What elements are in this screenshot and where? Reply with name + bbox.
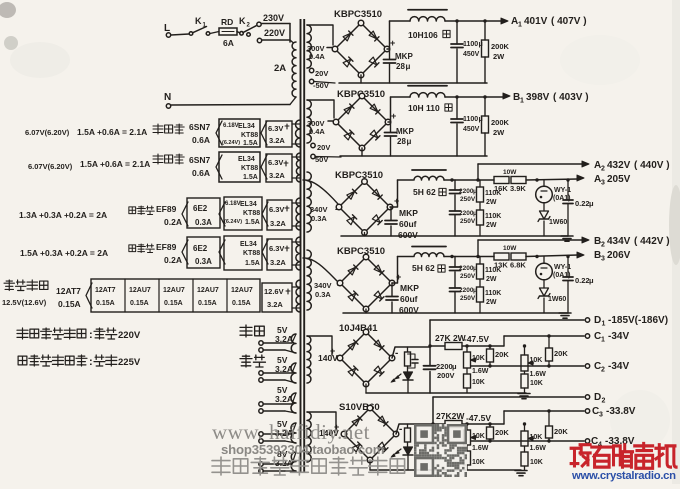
svg-text:1.5A: 1.5A <box>243 140 258 147</box>
svg-text:+: + <box>390 38 395 48</box>
svg-text:KT88: KT88 <box>241 132 258 139</box>
svg-text:(6.24V): (6.24V) <box>224 219 242 225</box>
svg-text:shop35392304.taobao.com: shop35392304.taobao.com <box>221 442 384 457</box>
svg-text:KBPC3510: KBPC3510 <box>335 170 383 181</box>
svg-text:0.4A: 0.4A <box>309 127 325 136</box>
svg-text:20V: 20V <box>315 69 328 78</box>
svg-text:20K: 20K <box>554 349 568 358</box>
svg-text:( 440V ): ( 440V ) <box>634 160 670 171</box>
svg-text:434V: 434V <box>607 236 631 247</box>
svg-text:KT88: KT88 <box>243 210 260 217</box>
svg-text:0.2A: 0.2A <box>164 255 182 265</box>
svg-text:N: N <box>164 92 171 103</box>
svg-text:250V: 250V <box>460 295 476 302</box>
svg-text:2: 2 <box>602 398 606 405</box>
svg-text:D: D <box>594 315 601 326</box>
svg-text:12AU7: 12AU7 <box>129 287 151 294</box>
svg-text:RD: RD <box>221 17 233 27</box>
svg-text:EF89: EF89 <box>156 242 177 252</box>
svg-text:27K2W: 27K2W <box>436 411 465 421</box>
svg-text:250V: 250V <box>460 273 476 280</box>
svg-text:12AT7: 12AT7 <box>95 287 116 294</box>
svg-text::: : <box>89 356 93 368</box>
svg-text:0.3A: 0.3A <box>311 214 327 223</box>
svg-text:6.18V: 6.18V <box>223 123 239 129</box>
svg-text:200K: 200K <box>491 42 510 51</box>
svg-text:1.6W: 1.6W <box>530 371 547 378</box>
svg-text::: : <box>89 329 93 341</box>
svg-text:2200: 2200 <box>436 362 453 371</box>
svg-text:+: + <box>396 272 401 282</box>
svg-text:10K: 10K <box>472 355 485 362</box>
svg-text:EL34: EL34 <box>240 241 257 248</box>
svg-text:μ: μ <box>589 199 594 208</box>
svg-text:1.6W: 1.6W <box>530 445 547 452</box>
svg-text:230V: 230V <box>263 13 284 23</box>
svg-text:KT88: KT88 <box>243 250 260 257</box>
svg-text:200V: 200V <box>437 371 455 380</box>
svg-text:0.22: 0.22 <box>575 276 590 285</box>
svg-text:1.3A +0.3A +0.2A = 2A: 1.3A +0.3A +0.2A = 2A <box>19 210 107 220</box>
svg-text:( 442V ): ( 442V ) <box>634 236 670 247</box>
svg-text:6.18V: 6.18V <box>225 201 241 207</box>
svg-text:3.2A: 3.2A <box>275 394 293 404</box>
svg-text:16K: 16K <box>494 184 508 193</box>
svg-text:-47.5V: -47.5V <box>466 413 491 423</box>
svg-text:12AU7: 12AU7 <box>197 287 219 294</box>
svg-text:2W: 2W <box>486 199 497 206</box>
svg-text:600V: 600V <box>398 230 418 240</box>
svg-text:( 407V ): ( 407V ) <box>551 16 587 27</box>
svg-text:+: + <box>330 346 335 356</box>
svg-text:2W: 2W <box>486 222 497 229</box>
svg-text:6SN7: 6SN7 <box>189 155 211 165</box>
svg-text:KBPC3510: KBPC3510 <box>334 9 382 20</box>
svg-text:225V: 225V <box>118 357 141 368</box>
svg-text:2W: 2W <box>486 276 497 283</box>
svg-text:KBPC3510: KBPC3510 <box>337 246 385 257</box>
svg-text:1.5A: 1.5A <box>245 260 260 267</box>
svg-text:340V: 340V <box>314 281 332 290</box>
svg-text:2200: 2200 <box>459 287 474 294</box>
svg-text:0.15A: 0.15A <box>232 300 251 307</box>
svg-text:340V: 340V <box>310 205 328 214</box>
svg-text:27K 2W: 27K 2W <box>435 333 467 343</box>
svg-text:12AU7: 12AU7 <box>231 287 253 294</box>
svg-text:+: + <box>391 111 396 121</box>
svg-text:6.3V: 6.3V <box>268 158 283 167</box>
svg-text:12AT7: 12AT7 <box>56 286 81 296</box>
svg-text:μ: μ <box>589 276 594 285</box>
svg-text:3.2A: 3.2A <box>270 219 286 228</box>
svg-text:450V: 450V <box>463 126 480 133</box>
svg-text:μ: μ <box>406 62 411 71</box>
svg-text:10W: 10W <box>503 245 517 252</box>
svg-text:0.4A: 0.4A <box>309 52 325 61</box>
svg-text:12.6V: 12.6V <box>264 287 284 296</box>
svg-text:D: D <box>594 392 601 403</box>
svg-text:10K: 10K <box>530 459 543 466</box>
svg-text:10K: 10K <box>530 380 543 387</box>
svg-text:6E2: 6E2 <box>193 204 208 213</box>
svg-text:3.9K: 3.9K <box>510 184 526 193</box>
svg-text:13K: 13K <box>494 261 508 270</box>
svg-text:1.5A: 1.5A <box>243 174 258 181</box>
svg-text:1.5A: 1.5A <box>245 219 260 226</box>
svg-text:206V: 206V <box>607 250 631 261</box>
svg-text:6.07V(6.20V): 6.07V(6.20V) <box>28 162 73 171</box>
svg-text:20V: 20V <box>317 143 330 152</box>
svg-text:0.6A: 0.6A <box>192 135 210 145</box>
svg-text:EL34: EL34 <box>238 156 255 163</box>
svg-text:60uf: 60uf <box>400 294 418 304</box>
svg-text:250V: 250V <box>460 196 476 203</box>
svg-text:10J4B41: 10J4B41 <box>339 323 378 334</box>
svg-text:6A: 6A <box>223 38 234 48</box>
svg-text:10H106: 10H106 <box>408 30 438 40</box>
svg-text:3.2A: 3.2A <box>267 300 283 309</box>
svg-text:EL34: EL34 <box>240 201 257 208</box>
svg-text:432V: 432V <box>607 160 631 171</box>
svg-text:12.5V(12.6V): 12.5V(12.6V) <box>2 298 47 307</box>
svg-text:-34V: -34V <box>608 331 629 342</box>
svg-text:( 403V ): ( 403V ) <box>553 92 589 103</box>
svg-text:5H 62: 5H 62 <box>412 263 435 273</box>
svg-text:EF89: EF89 <box>156 204 177 214</box>
svg-text:5H 62: 5H 62 <box>413 187 436 197</box>
svg-text:0.6A: 0.6A <box>192 168 210 178</box>
svg-text:220V: 220V <box>264 28 285 38</box>
svg-text:2: 2 <box>601 242 605 249</box>
svg-text:401V: 401V <box>524 16 548 27</box>
svg-text:KT88: KT88 <box>241 165 258 172</box>
svg-text:1.5A +0.6A = 2.1A: 1.5A +0.6A = 2.1A <box>77 127 147 137</box>
svg-text:6.07V(6.20V): 6.07V(6.20V) <box>25 128 70 137</box>
svg-text:1: 1 <box>520 98 524 105</box>
svg-text:0.3A: 0.3A <box>315 290 331 299</box>
svg-text:MKP: MKP <box>395 52 413 61</box>
svg-text:MKP: MKP <box>400 283 419 293</box>
svg-text:1: 1 <box>602 321 606 328</box>
svg-text:12AU7: 12AU7 <box>163 287 185 294</box>
svg-text:3.2A: 3.2A <box>269 136 285 145</box>
svg-text:μ: μ <box>452 362 457 371</box>
svg-text:0.15A: 0.15A <box>164 300 183 307</box>
svg-text:2W: 2W <box>493 52 505 61</box>
svg-text:1.5A +0.3A +0.2A = 2A: 1.5A +0.3A +0.2A = 2A <box>20 248 108 258</box>
svg-text:6.3V: 6.3V <box>269 244 284 253</box>
svg-text:10W: 10W <box>503 169 517 176</box>
svg-text:0.15A: 0.15A <box>58 299 81 309</box>
svg-text:20K: 20K <box>554 427 568 436</box>
svg-text:6E2: 6E2 <box>193 244 208 253</box>
svg-text:-: - <box>399 424 402 435</box>
svg-text:1: 1 <box>518 22 522 29</box>
svg-text:110K: 110K <box>485 290 501 297</box>
svg-text:250V: 250V <box>460 218 476 225</box>
svg-text:0.22: 0.22 <box>575 199 590 208</box>
svg-text:-185V(-186V): -185V(-186V) <box>608 315 668 326</box>
svg-text:(6.24V): (6.24V) <box>222 140 240 146</box>
svg-text:10K: 10K <box>530 434 543 441</box>
svg-text:28: 28 <box>396 62 405 71</box>
svg-text:K: K <box>195 16 202 26</box>
svg-text:1100: 1100 <box>463 41 478 48</box>
svg-text:10K: 10K <box>472 433 485 440</box>
svg-text:6.8K: 6.8K <box>510 261 526 270</box>
svg-text:3.2A: 3.2A <box>270 258 286 267</box>
svg-text:1: 1 <box>601 337 605 344</box>
svg-text:1.6W: 1.6W <box>472 445 489 452</box>
svg-text:2: 2 <box>601 367 605 374</box>
svg-text:1.6W: 1.6W <box>472 368 489 375</box>
svg-text:-34V: -34V <box>608 361 629 372</box>
svg-text:60uf: 60uf <box>399 219 417 229</box>
svg-text:20K: 20K <box>495 350 509 359</box>
svg-text:3: 3 <box>601 256 605 263</box>
svg-text:10K: 10K <box>472 459 485 466</box>
svg-text:-47.5V: -47.5V <box>464 334 489 344</box>
svg-text:3: 3 <box>601 180 605 187</box>
svg-text:6.3V: 6.3V <box>268 124 283 133</box>
svg-text:0.15A: 0.15A <box>198 300 217 307</box>
svg-text:28: 28 <box>397 137 406 146</box>
svg-text:205V: 205V <box>607 174 631 185</box>
svg-text:MKP: MKP <box>399 208 418 218</box>
svg-text:1W60: 1W60 <box>549 219 567 226</box>
svg-text:-: - <box>395 348 398 359</box>
svg-text:3: 3 <box>599 412 603 419</box>
svg-text:2200: 2200 <box>459 210 474 217</box>
svg-text:0.2A: 0.2A <box>164 217 182 227</box>
svg-text:2W: 2W <box>493 128 505 137</box>
svg-text:1W60: 1W60 <box>548 296 566 303</box>
svg-text:200K: 200K <box>491 118 510 127</box>
svg-text:μ: μ <box>407 137 412 146</box>
svg-text:0.3A: 0.3A <box>195 218 212 227</box>
svg-text:+: + <box>394 196 399 206</box>
svg-text:1100: 1100 <box>463 116 478 123</box>
svg-text:0.3A: 0.3A <box>195 257 212 266</box>
svg-text:1.5A +0.6A = 2.1A: 1.5A +0.6A = 2.1A <box>80 159 150 169</box>
svg-text:10K: 10K <box>530 357 543 364</box>
svg-text:www.crystalradio.cn: www.crystalradio.cn <box>571 470 676 482</box>
svg-text:0.15A: 0.15A <box>96 300 115 307</box>
svg-text:EL34: EL34 <box>238 123 255 130</box>
svg-text:20K: 20K <box>495 428 509 437</box>
svg-text:6SN7: 6SN7 <box>189 122 211 132</box>
svg-text:450V: 450V <box>463 51 480 58</box>
svg-text:398V: 398V <box>526 92 550 103</box>
svg-text:www. haifidiy.net: www. haifidiy.net <box>212 420 370 444</box>
svg-text:6.3V: 6.3V <box>269 205 284 214</box>
svg-text:110K: 110K <box>485 213 501 220</box>
svg-text:10H 110: 10H 110 <box>408 103 440 113</box>
svg-text:10K: 10K <box>472 379 485 386</box>
svg-text:2: 2 <box>601 166 605 173</box>
svg-text:2200: 2200 <box>459 188 474 195</box>
svg-text:-33.8V: -33.8V <box>606 406 636 417</box>
svg-text:3.2A: 3.2A <box>269 171 285 180</box>
svg-text:MKP: MKP <box>396 127 414 136</box>
svg-text:K: K <box>239 16 246 26</box>
svg-text:2A: 2A <box>274 63 286 74</box>
svg-text:2200: 2200 <box>459 265 474 272</box>
svg-text:220V: 220V <box>118 330 141 341</box>
svg-text:2W: 2W <box>486 299 497 306</box>
svg-text:0.15A: 0.15A <box>130 300 149 307</box>
